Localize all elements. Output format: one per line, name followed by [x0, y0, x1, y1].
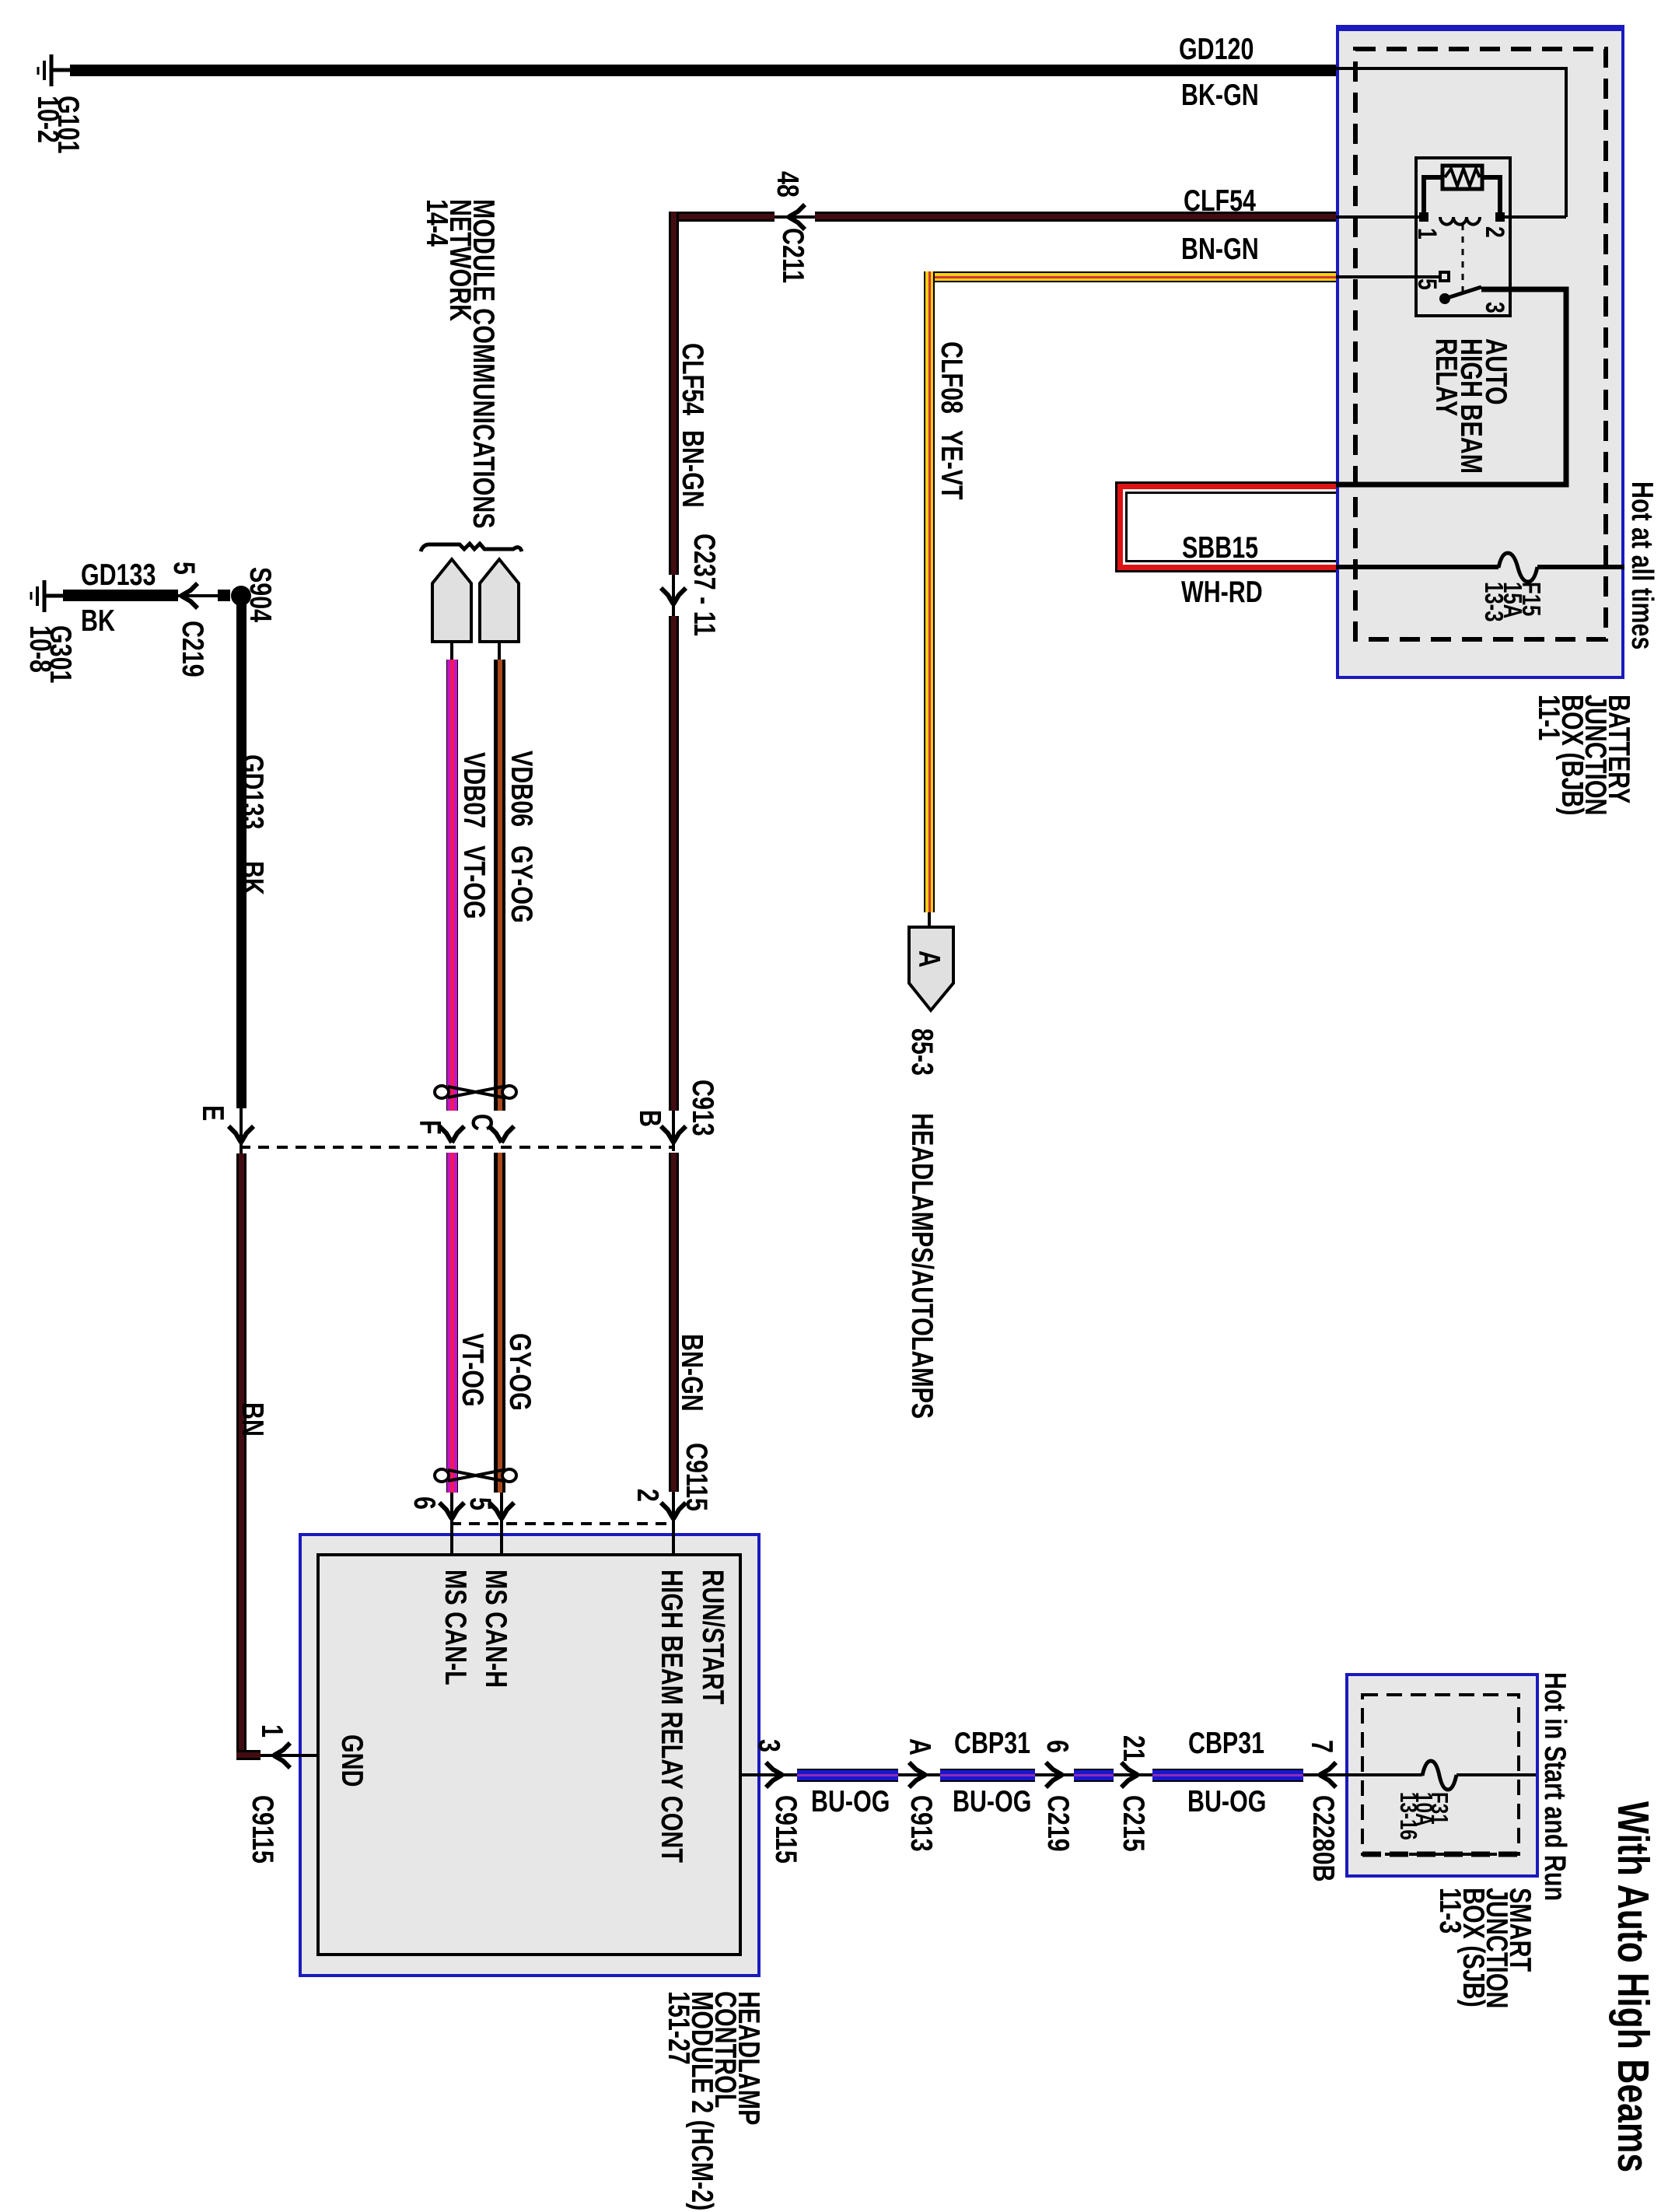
label G301 10-8: [30, 625, 70, 683]
label C913 chain: [909, 1795, 932, 1852]
wire CLF54 thin line to relay pin 1: [1336, 215, 1424, 219]
label CLF54 horizontal: [1184, 187, 1256, 215]
wire CLF08 YE-VT horizontal: [924, 271, 1336, 282]
connector C9115 pin 6 arrow: [439, 1503, 464, 1519]
connector C9115 dashed line: [450, 1522, 675, 1525]
label pin 6 chain: [1045, 1740, 1068, 1753]
label 85-3: [910, 1028, 933, 1076]
wire CLF54 BN-GN vertical seg3: [669, 1153, 679, 1492]
wire SBB15 outer sheath: [1115, 481, 1336, 572]
label BN-GN horizontal: [1181, 236, 1259, 264]
fuse F15 element: [1498, 553, 1537, 582]
wire thin line HCM pin5: [500, 1493, 503, 1553]
label CLF08: [939, 341, 963, 414]
label F15 15A 13-3: [1484, 582, 1540, 622]
BJB inner dashed box: [1355, 49, 1606, 639]
label pin 3: [757, 1739, 780, 1752]
wire thin line C237-11 gap: [672, 572, 675, 618]
label pin 5: [468, 1497, 491, 1510]
ground G101: [38, 54, 73, 86]
label VDB06: [509, 751, 533, 827]
relay resistor zigzag: [1445, 169, 1480, 186]
label CBP31 seg4: [1188, 1730, 1264, 1758]
label C211: [781, 228, 804, 283]
headlamp control module 2 HCM-2 box: [299, 1533, 761, 1977]
wire CLF54 BN-GN vertical seg1: [669, 212, 679, 575]
label Hot at all times: [1630, 481, 1653, 649]
connector C913 pin F arrow: [439, 1126, 464, 1143]
relay pin 1 dot: [1419, 212, 1428, 222]
wire thin line C219 gap: [175, 594, 218, 597]
label HEADLAMPS/AUTOLAMPS: [910, 1113, 933, 1419]
fuse F31 element: [1422, 1761, 1456, 1790]
label GD120: [1179, 36, 1254, 64]
relay box outline: [1414, 156, 1512, 317]
label VDB07: [462, 752, 485, 828]
smart junction box SJB: [1345, 1673, 1539, 1878]
label pin 6: [412, 1496, 435, 1510]
label BATTERY JUNCTION BOX: [1537, 695, 1630, 815]
connector C913 dashed line: [240, 1146, 675, 1149]
label BU-OG seg1: [811, 1788, 890, 1816]
relay pin 3 heavy wire to SBB15: [1336, 289, 1566, 485]
wire thin line C211 gap: [771, 215, 818, 219]
label BK: [81, 607, 115, 635]
wire thin line pentagon A lead: [928, 910, 931, 929]
label WH-RD: [1181, 579, 1263, 607]
label pin F: [418, 1120, 441, 1135]
wire CLF54 BN-GN vertical seg2: [669, 616, 679, 1111]
wire thin line E gap: [240, 1108, 243, 1153]
wire VDB06 GY-OG seg1: [494, 660, 505, 1111]
label SBB15: [1182, 534, 1258, 562]
connector C219 pin 6 arrow: [1046, 1762, 1062, 1787]
relay pin 2 dot: [1495, 212, 1505, 222]
connector C913 pin E arrow: [229, 1126, 254, 1143]
label pin E: [201, 1105, 224, 1121]
label MODULE COMMUNICATIONS NETWORK: [425, 199, 495, 529]
wire thin line pentagon VDB07 lead: [450, 640, 453, 661]
connector C913 pin A arrow: [909, 1762, 925, 1787]
label Hot in Start and Run: [1543, 1672, 1566, 1901]
label pin 2: [635, 1489, 659, 1502]
wire thin line HCM pin1 GND: [257, 1754, 316, 1757]
wire thin line C913-B gap: [672, 1108, 675, 1151]
label A pentagon: [917, 950, 940, 968]
wire GD133 BK vertical: [236, 599, 247, 1108]
connector C9115 pin 1 arrow: [274, 1743, 290, 1768]
label MS CAN-L: [443, 1570, 467, 1685]
relay coil arcs: [1440, 217, 1480, 225]
wire VDB07 VT-OG seg1: [446, 660, 458, 1111]
label pin 7: [1310, 1740, 1333, 1753]
label CLF54 vertical: [680, 343, 704, 415]
label GY-OG lower: [508, 1333, 531, 1411]
wire CBP31 BU-OG seg2: [940, 1769, 1035, 1782]
fuse F15 wire left: [1336, 565, 1498, 569]
label C9115 at pin3: [774, 1795, 797, 1864]
label CBP31 seg2: [954, 1730, 1030, 1758]
twisted pair link upper: [435, 1086, 516, 1098]
relay coil-switch dashed link: [1462, 224, 1464, 296]
label pin C: [470, 1114, 493, 1131]
wire relay pin2 to corner: [1500, 215, 1566, 219]
connector C215 pin 21 arrow: [1121, 1762, 1138, 1787]
wire CLF54 BN-GN horizontal left of C211: [669, 212, 775, 222]
label relay pin 3: [1483, 302, 1506, 313]
label BU-OG seg2: [953, 1788, 1031, 1816]
network connector pentagon VDB06: [480, 559, 519, 642]
wire SBB15 red sheath: [1117, 484, 1336, 570]
label relay pin 2: [1483, 226, 1506, 238]
label pin A: [907, 1738, 931, 1755]
battery junction box BJB: [1336, 25, 1624, 679]
wire VDB07 VT-OG seg2: [446, 1153, 458, 1493]
wire VDB06 GY-OG seg2: [494, 1153, 505, 1493]
label BN vertical: [240, 1402, 264, 1437]
wire BN corner at GND: [236, 1750, 261, 1760]
fuse F31 wire right: [1456, 1773, 1536, 1776]
twisted pair link lower: [435, 1469, 516, 1482]
wire thin line HCM pin3 RUN/START: [740, 1773, 799, 1776]
label HIGH BEAM RELAY CONT: [659, 1570, 683, 1863]
label GY-OG: [509, 845, 533, 923]
network connector pentagon VDB07: [432, 559, 471, 642]
wire thin line HCM pin2: [672, 1489, 675, 1553]
ground G301: [31, 580, 66, 612]
label C9115 at GND: [250, 1795, 274, 1864]
label BN-GN lower: [680, 1334, 703, 1412]
label C219: [180, 621, 204, 677]
label GND: [340, 1734, 363, 1787]
connector C9115 pin 5 arrow: [489, 1503, 514, 1519]
connector C9115 pin 2 arrow: [661, 1503, 686, 1519]
module communications brace: [421, 544, 522, 551]
label YE-VT: [939, 430, 963, 500]
fuse F15 wire right: [1537, 565, 1624, 569]
SJB inner dashed box: [1362, 1695, 1519, 1854]
label relay pin 5: [1415, 278, 1439, 290]
label SMART JUNCTION BOX: [1438, 1888, 1531, 2008]
wire GD133 BK horizontal: [63, 590, 178, 601]
HCM-2 inner rectangle: [316, 1553, 742, 1956]
label relay pin 1: [1415, 228, 1439, 240]
label BN-GN vertical: [680, 430, 704, 508]
label VT-OG: [462, 845, 485, 919]
label F31 10A 13-16: [1400, 1792, 1447, 1840]
label VT-OG lower: [460, 1333, 484, 1407]
wire GD133 stub after C219: [218, 590, 230, 601]
label C237-11: [692, 534, 715, 636]
title With Auto High Beams: [1610, 1801, 1656, 2172]
connector C9115 pin 3 arrow: [766, 1762, 782, 1787]
label pin 48: [775, 171, 799, 198]
relay pin 5 terminal: [1440, 272, 1449, 281]
offpage connector A pentagon: [909, 927, 953, 1010]
label C2280B: [1311, 1795, 1334, 1882]
wire CBP31 BU-OG seg3: [1074, 1769, 1114, 1782]
wire CLF54 BN-GN horizontal right of C211: [815, 212, 1336, 222]
wire thin line pentagon VDB06 lead: [498, 640, 501, 661]
label C215: [1121, 1795, 1145, 1852]
label RUN/START: [701, 1570, 724, 1704]
label pin B: [638, 1110, 661, 1127]
wire CLF08 thin line to relay pin 5: [1336, 275, 1441, 278]
connector C913 pin C arrow: [489, 1126, 514, 1143]
connector C211 arrow: [789, 205, 805, 229]
wire CLF08 YE-VT vertical: [924, 271, 935, 912]
label C913: [691, 1080, 714, 1136]
SJB dashed box bottom heavy edge: [1362, 1852, 1519, 1857]
wire thin line BU-OG chain gaps: [896, 1773, 1348, 1776]
label C219 chain: [1046, 1795, 1069, 1852]
splice S904: [231, 586, 251, 606]
connector C2280B pin 7 arrow: [1320, 1762, 1336, 1787]
label C9115 at pin2: [684, 1443, 708, 1511]
relay resistor box: [1442, 166, 1482, 189]
label BK-GN: [1181, 82, 1259, 110]
label G101 10-2: [37, 96, 78, 153]
relay coil stubs to resistor: [1424, 177, 1500, 217]
label MS CAN-H / MS CAN-L: [484, 1570, 507, 1688]
label pin 5 C219: [172, 562, 195, 575]
wire BN vertical to GND: [236, 1153, 247, 1752]
wire SBB15 inner outline: [1125, 492, 1336, 562]
label BU-OG seg4: [1187, 1788, 1266, 1816]
relay switch arm: [1445, 287, 1481, 299]
label BK vertical: [240, 861, 264, 895]
wire thin line GD120 to relay pin 2: [1336, 68, 1566, 217]
wire CBP31 BU-OG seg4: [1152, 1769, 1303, 1782]
label HEADLAMP CONTROL MODULE 2: [666, 1991, 760, 2210]
wire GD120 BK-GN: [70, 65, 1336, 76]
label AUTO HIGH BEAM RELAY: [1433, 338, 1508, 474]
label pin 21: [1121, 1735, 1145, 1762]
wire thin line HCM pin6: [450, 1493, 453, 1553]
relay switch contact dot: [1439, 293, 1450, 304]
connector C219 arrow: [181, 583, 198, 608]
wire CBP31 BU-OG seg1: [797, 1769, 898, 1782]
label pin 1: [260, 1724, 283, 1738]
fuse F31 wire left: [1345, 1773, 1422, 1776]
label S904: [248, 567, 271, 622]
label GD133 vertical: [240, 754, 264, 829]
connector C913 pin B arrow: [661, 1126, 686, 1143]
label GD133: [81, 562, 156, 590]
connector C237-11 arrow: [661, 588, 686, 604]
